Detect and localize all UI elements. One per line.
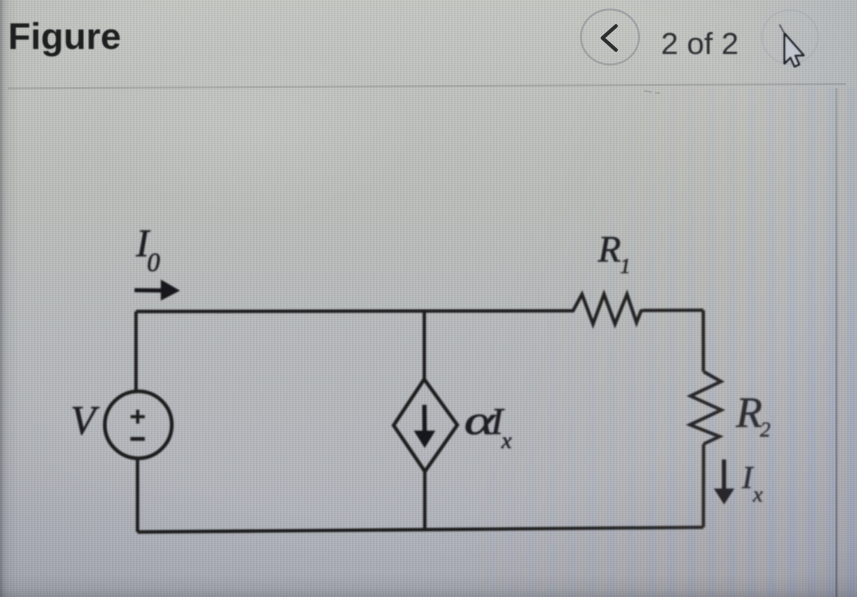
current arrow Ix — [722, 460, 726, 492]
svg-text:2: 2 — [760, 418, 771, 442]
mouse cursor — [780, 25, 804, 67]
dependent source arrow — [422, 405, 427, 432]
voltage source plus — [131, 410, 145, 424]
svg-text:x: x — [501, 428, 513, 453]
resistor R1 — [569, 294, 643, 324]
svg-text:R: R — [735, 390, 762, 437]
next button (faint/disabled) — [762, 10, 818, 64]
prev button — [581, 10, 639, 65]
wire top left horizontal — [136, 309, 569, 313]
wire left vertical (bottom) — [136, 458, 139, 533]
label alpha Ix — [464, 398, 496, 443]
wire top right (R1 to corner) — [643, 309, 703, 313]
wire right vertical (bottom) — [702, 444, 706, 527]
header title — [8, 16, 121, 58]
resistor R2 — [690, 372, 721, 445]
dependent source diamond — [394, 379, 458, 471]
wire middle vertical (bottom) — [423, 471, 426, 530]
voltage source V circle — [105, 391, 172, 458]
wire left vertical (top) — [134, 312, 137, 393]
svg-text:0: 0 — [147, 248, 160, 277]
wire bottom horizontal — [138, 527, 704, 532]
right edge dark line — [836, 88, 838, 597]
svg-text:x: x — [752, 482, 763, 507]
separator line — [8, 83, 846, 89]
voltage source minus — [130, 437, 144, 441]
svg-text:1: 1 — [620, 254, 631, 278]
page count — [661, 26, 739, 62]
wire right vertical (top) — [702, 310, 706, 371]
current arrow I0 — [135, 288, 165, 292]
faint smudge below separator — [644, 91, 660, 93]
svg-text:R: R — [597, 230, 621, 271]
wire middle vertical (top) — [423, 311, 426, 380]
svg-text:V: V — [71, 397, 100, 443]
